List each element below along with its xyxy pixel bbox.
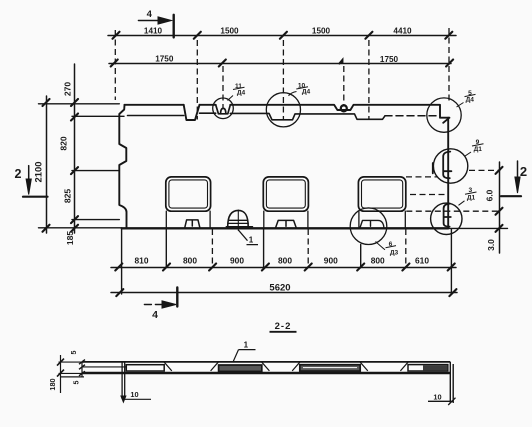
bottom extension x=121.6 (121, 229, 123, 294)
left outer dim line 2100 (46, 96, 48, 233)
svg-text:2100: 2100 (33, 162, 44, 183)
left extension y=117 (72, 115, 124, 117)
section extension lines (59, 362, 85, 373)
opening 2 outer (263, 177, 308, 211)
opening 1 outer (166, 177, 211, 211)
detail circle 6/Д3 (350, 208, 387, 245)
panel top face line (125, 105, 450, 123)
dimension ticks (43, 32, 503, 296)
extensions below panel: opening edges (211, 229, 213, 267)
arch chords (228, 220, 248, 223)
left extension y=170.6 (72, 170, 119, 172)
notch A mini arch (221, 108, 226, 113)
svg-text:5: 5 (72, 381, 81, 385)
detail circle 10/Д4 (266, 93, 300, 127)
notch A walls and bottom (216, 105, 231, 114)
block below opening 1 (166, 211, 210, 228)
svg-text:4410: 4410 (393, 27, 412, 36)
bottom dim row 2 line (111, 292, 457, 294)
svg-text:6.0: 6.0 (485, 189, 495, 201)
svg-text:10: 10 (130, 390, 138, 399)
right bottom extension y=228.4 (446, 227, 508, 229)
section core slot 2 (outlined, dark interior) (219, 365, 262, 371)
bottom extension x=360.7 (solid) (360, 245, 362, 267)
notch below opening 2 (275, 220, 296, 228)
centerline x=223 (222, 66, 224, 108)
svg-text:1: 1 (244, 341, 249, 350)
notch below opening 1 (185, 220, 200, 228)
bottom dim row 1 line (111, 267, 456, 269)
section slab edge ticks (79, 360, 85, 376)
svg-text:Д1: Д1 (474, 146, 483, 153)
right side dashed extensions (469, 169, 501, 171)
opening 1 inner (169, 180, 208, 208)
svg-text:610: 610 (415, 256, 429, 266)
top dim row 1 line (108, 35, 456, 37)
svg-text:900: 900 (230, 256, 244, 266)
section slab left edge (61, 362, 84, 377)
opening 2 inner (266, 180, 305, 208)
top edge dip at x=184-199 (184, 105, 200, 120)
bottom extension x=451.4 (450, 229, 452, 294)
svg-text:1: 1 (249, 236, 254, 245)
centerline x=197 (196, 40, 198, 120)
right dim line (499, 162, 501, 253)
svg-text:2: 2 (15, 167, 22, 181)
block below opening 2 (264, 211, 308, 228)
detail circle 9/Д1 (433, 149, 467, 183)
block below opening 3 (359, 211, 405, 228)
lifting loop ring at x=343.8 (341, 105, 347, 111)
svg-text:1500: 1500 (220, 27, 239, 36)
lifting eye arch (228, 210, 249, 226)
section marker 2 left (23, 166, 48, 197)
panel left keyed edge (119, 105, 126, 229)
bottom extension x=166.3 (solid) (165, 229, 167, 267)
svg-text:1500: 1500 (312, 27, 331, 36)
detail circle 3/Д1 (431, 203, 462, 234)
section marker 4 bottom (144, 288, 177, 309)
notch below opening 3 (in circle 6/Д3) (360, 220, 384, 228)
label 1 (arch leader) (239, 230, 259, 244)
bottom extension x=263.6 (solid) (263, 229, 265, 267)
edge key detail in circle 3/Д1 (444, 204, 451, 227)
detail circle 11/Д4 (213, 98, 234, 119)
svg-text:800: 800 (371, 256, 385, 266)
arch base skirt (226, 226, 252, 228)
dashed centerlines and extension lines (115, 28, 500, 267)
opening 3 inner (362, 180, 403, 208)
svg-text:5: 5 (69, 351, 78, 355)
svg-text:3.0: 3.0 (486, 239, 496, 251)
section core slot 4 (408, 365, 448, 371)
svg-text:Д4: Д4 (237, 90, 246, 97)
row2 hook tick (339, 60, 342, 64)
svg-text:10: 10 (433, 392, 441, 401)
svg-text:Д3: Д3 (390, 250, 399, 257)
section slab bottom line (82, 372, 451, 375)
svg-text:4: 4 (147, 9, 153, 20)
arch centerline (237, 210, 239, 231)
centerline x=283.4 (282, 40, 284, 121)
svg-text:1750: 1750 (155, 55, 174, 64)
section marker 2 right (501, 161, 521, 196)
centerline left ticks column (114, 30, 116, 100)
centerline x=368.9 (368, 40, 370, 120)
section slab second line (82, 366, 126, 368)
section web chamfers (164, 362, 408, 371)
section marker 4 top (138, 15, 173, 38)
svg-text:Д4: Д4 (466, 97, 475, 104)
svg-text:900: 900 (324, 256, 338, 266)
svg-text:1750: 1750 (380, 55, 399, 64)
svg-text:180: 180 (48, 378, 57, 390)
centerline x=343.5 (343, 66, 345, 106)
section left rib (122, 362, 125, 399)
left extension y=105.8 (39, 103, 120, 105)
svg-text:5620: 5620 (269, 283, 290, 294)
svg-text:185: 185 (65, 231, 75, 246)
section core slot 1 (outline) (126, 365, 164, 371)
ledge dashed segment right (385, 115, 440, 117)
svg-text:Д4: Д4 (302, 89, 311, 96)
panel right edge (447, 118, 449, 229)
left extension y=219.6 (72, 219, 119, 221)
section right end (450, 362, 453, 403)
left rib 10 dim (125, 398, 151, 400)
svg-text:4: 4 (152, 309, 158, 321)
svg-text:2-2: 2-2 (275, 321, 292, 332)
svg-text:825: 825 (63, 189, 73, 204)
svg-text:Д1: Д1 (467, 195, 476, 202)
svg-text:810: 810 (135, 256, 149, 266)
section core slot 3 (outlined, dark interior) (300, 365, 360, 371)
svg-text:800: 800 (183, 256, 197, 266)
svg-text:270: 270 (63, 82, 73, 97)
opening 3 outer (358, 177, 405, 211)
edge key detail in circle 9/Д1 (433, 152, 452, 179)
top dim row 2 line (109, 63, 451, 65)
left extension y=228 (39, 227, 122, 229)
svg-text:800: 800 (278, 256, 292, 266)
svg-text:2: 2 (520, 164, 527, 179)
left inner dim line (74, 64, 76, 233)
centerline x=449 (448, 28, 450, 104)
section 2-2 slab top line (82, 361, 450, 363)
svg-text:820: 820 (59, 136, 69, 151)
right end 10 dim (428, 398, 456, 405)
top edge ledge line (128, 113, 386, 120)
panel bottom face (122, 227, 449, 229)
section outer height dim line (60, 355, 62, 393)
detail circle 5/Д4 (427, 98, 461, 132)
svg-text:1410: 1410 (144, 26, 163, 35)
